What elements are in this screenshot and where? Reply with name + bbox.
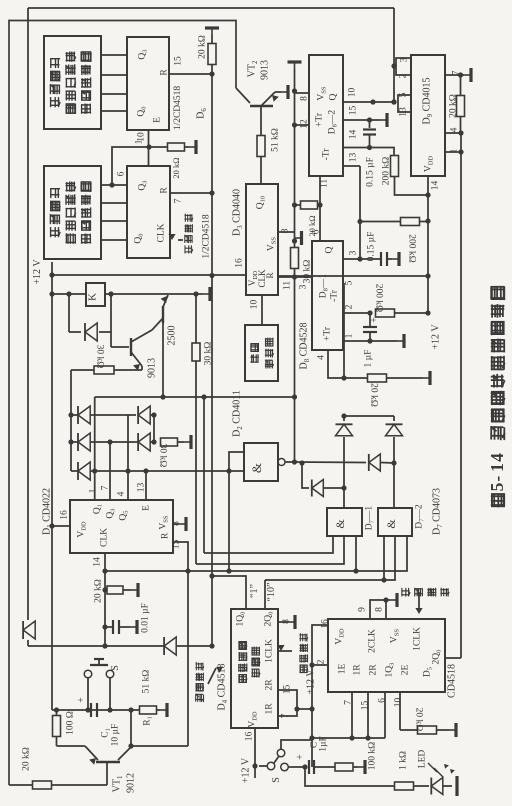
transistor VT1 bar [96,761,120,763]
junction +12V [49,272,54,277]
junction [353,568,358,573]
junction [209,643,214,648]
wire 30k col [195,294,197,343]
wire display bus units [101,184,127,186]
svg-text:S: S [110,665,121,671]
IC D3 CD4040 [246,184,278,295]
wire pin8 [278,621,288,623]
wire flyback right [110,294,112,332]
wire NAND-in col [228,471,230,571]
junction [68,412,73,417]
ground pin1 [397,340,404,342]
switch S2 contact dn [281,763,289,771]
wire VT2 emitter [261,92,275,106]
wire [57,745,86,747]
wire tie 9/8 [370,600,386,619]
junction [49,523,54,528]
svg-text:9013: 9013 [147,358,158,378]
wire D8-1 pin1 [343,340,397,342]
svg-text:1: 1 [88,488,98,493]
wire 1CLK stub [278,650,292,652]
wire base link [110,332,112,347]
resistor R1 51k [140,706,157,714]
junction [349,735,354,740]
junction [383,597,388,602]
wire 200k to D9 pin14 [395,176,429,195]
junction [367,338,372,343]
wire pin5 [343,282,344,284]
svg-text:2: 2 [344,304,354,309]
ground 20k [131,589,138,591]
ground D8-2 pins 8,12 [294,62,296,69]
capacitor 0.15uF (D8-2 timing) [363,128,376,130]
ground pin8 [179,523,186,525]
ground VT2 emitter [281,91,288,93]
wire pin7 [445,74,464,76]
wire bundle L5 [265,536,395,580]
wire [324,487,344,489]
junction [102,643,107,648]
svg-text:+12 V: +12 V [241,757,252,783]
svg-text:20 kΩ: 20 kΩ [369,383,379,407]
svg-text:+12 V: +12 V [306,669,317,695]
wire VT4 collector diag [131,330,152,342]
wire pin15/14 to gnd+cap [343,119,370,121]
diode flyback [85,323,97,341]
wire VT2 base [260,106,262,135]
wire +12V rail to D3 pin16 [52,274,246,276]
IC D8-2 monostable [309,55,343,176]
ground 100k [358,766,365,768]
svg-text:Q: Q [328,93,338,100]
arrowhead coin signal [216,667,223,673]
svg-text:R: R [159,69,169,76]
junction [102,587,107,592]
wire D1 pin14 col [104,553,106,646]
wire column [359,166,361,259]
wire LED feed [305,767,395,786]
block units-digit display driver [44,166,101,259]
svg-text:4: 4 [449,127,459,132]
junction [292,274,297,279]
wire [153,415,155,442]
wire tie [344,415,394,417]
svg-text:1/2CD4518: 1/2CD4518 [201,214,211,259]
svg-text:0.15 µF: 0.15 µF [366,232,376,262]
wire bus D6 column [211,74,213,193]
svg-text:6: 6 [116,171,126,176]
caption 图5-14 投币打靶游戏机电路 [487,286,507,507]
wire tie pins 5,13 [398,95,411,112]
ground matrix [184,441,191,443]
svg-text:+: + [76,697,87,703]
svg-text:-Tr: -Tr [329,289,339,302]
switch S1 bar [90,664,108,666]
IC D6 1/2CD4518 units counter (lower) [127,166,170,258]
wire pin14 [427,176,429,195]
svg-text:16: 16 [234,258,244,268]
junction [193,291,198,296]
svg-text:20 kΩ: 20 kΩ [414,708,424,732]
capacitor 0.15uF (D8-1) [380,252,382,266]
diode row2 right [138,433,150,451]
resistor 200k [376,309,395,317]
wire to D3 [260,157,262,184]
wire row1 [71,414,128,416]
svg-text:D4​ CD4518: D4​ CD4518 [217,663,229,710]
label hit-signal into D6 CLK [185,214,193,254]
wire to VT1 collector [131,745,188,747]
transistor VT4 bar [130,338,132,356]
resistor 200k (D8-2 timing) [391,156,399,177]
wire column (D8-2 gnd pins / 30k) [294,69,296,248]
svg-text:D3​ CD4040: D3​ CD4040 [232,189,244,236]
wire D8-1 pin3 [343,258,381,260]
wire [211,35,213,44]
svg-text:2500: 2500 [167,326,178,346]
svg-text:200 kΩ: 200 kΩ [407,234,417,262]
capacitor C1 10uF (polarized) [90,703,92,717]
wire [381,462,394,465]
svg-text:1CLK: 1CLK [264,639,274,663]
capacitor 0.01uF [112,620,114,634]
wire K rail to gnd node [105,293,196,295]
wire D7-2 in1 [383,536,385,580]
ground 9/8 [390,599,397,601]
wire S2 up-contact [281,740,313,749]
transistor VT3 bar [162,306,164,323]
svg-text:0.01 µF: 0.01 µF [140,603,150,633]
svg-text:14: 14 [348,130,358,140]
wire pin7 col [109,442,111,500]
wire display bus units [101,220,127,222]
wire [302,463,309,488]
svg-text:D8​—1: D8​—1 [318,274,329,299]
relay K [86,283,105,306]
wire display bus units [101,202,127,204]
wire top-bus drop / pin1 col [94,397,96,471]
svg-text:CD4518: CD4518 [447,664,458,698]
svg-text:14: 14 [430,181,440,191]
svg-text:+12 V: +12 V [431,324,442,350]
wire pin2 [312,664,328,666]
wire display bus [101,54,127,56]
wire VT3 collector [162,321,164,397]
wire +12V to D8/D9 area [278,275,428,277]
svg-text:E: E [141,505,151,511]
svg-text:2CLK: 2CLK [367,629,377,653]
switch S2 lever [274,756,279,763]
ground (20k top) [211,28,213,35]
bubble NAND output [278,459,285,466]
wire [314,766,335,768]
junction [49,291,54,296]
junction [292,238,297,243]
svg-text:1E: 1E [337,664,347,675]
wire pin16 [254,728,256,778]
diode VD on bus-B [23,621,35,639]
resistor 30k (matrix) [161,438,178,446]
svg-text:8: 8 [299,96,309,101]
svg-text:R: R [160,532,170,539]
svg-text:20 kΩ: 20 kΩ [21,747,31,771]
wire bus column [211,193,213,276]
svg-text:10 µF: 10 µF [110,724,120,747]
svg-text:+: + [369,317,380,323]
wire pin4 [445,132,461,134]
junction [209,573,214,578]
wire display bus [101,93,127,95]
svg-text:D7​ CD4073: D7​ CD4073 [432,488,444,535]
wire D6-bus column lower [211,276,213,646]
resistor 20k (pin4) [368,374,387,382]
junction [102,624,107,629]
svg-text:11: 11 [319,179,329,188]
wire bus PY646 [28,645,212,647]
wire bundle L3 [105,536,407,571]
svg-text:1: 1 [134,139,144,144]
wire pin1 [445,151,461,153]
junction [107,707,112,712]
junction [341,413,346,418]
svg-text:0.15 µF: 0.15 µF [365,157,375,187]
svg-text:51 kΩ: 51 kΩ [141,670,151,694]
arrow fire signal [277,645,284,651]
wire [443,785,452,787]
svg-text:1R: 1R [264,703,274,715]
wire bundle L1 [204,536,333,553]
svg-text:+: + [295,754,306,760]
svg-text:LED: LED [417,750,427,769]
wire pin1 [94,471,96,500]
svg-text:5: 5 [487,482,507,491]
junction [160,394,165,399]
block tens-digit display driver [44,36,101,129]
wire VT4 emitter diag [131,352,142,366]
wire bus-B left vertical [27,8,29,620]
svg-text:9012: 9012 [126,773,137,793]
junction [85,707,90,712]
wire [27,640,29,646]
diode row3 [78,462,90,480]
wire pin8 [173,523,179,525]
wire NAND input [229,470,244,472]
switch S1 contact a [84,670,92,678]
svg-text:-: - [487,476,507,482]
svg-text:+Tr: +Tr [322,326,332,341]
resistor 20k (D9) [457,96,465,117]
junction [151,439,156,444]
svg-text:9: 9 [357,607,367,612]
wire coin line [52,709,160,711]
wire D7-2 out [393,463,395,508]
label hit-signal (vertical) [401,588,403,597]
wire S2 dn-contact [289,766,304,768]
svg-text:20 kΩ: 20 kΩ [197,35,207,59]
svg-text:&: & [249,463,264,473]
svg-text:13: 13 [348,153,358,163]
block square-wave generator [245,325,278,381]
wire matrix top bus [95,396,295,398]
resistor 100Ω [53,716,61,737]
svg-text:9013: 9013 [260,60,271,80]
wire VT1 base [106,762,108,785]
gate D7-2 AND [378,508,412,536]
wire D1 pin15 [173,542,188,571]
wire +12V column [427,195,429,313]
svg-text:20 kΩ: 20 kΩ [93,579,103,603]
wire D4 2Q0 [264,580,266,609]
wire bus-A (left/top rail to VT2 collector) [9,21,236,786]
wire matrix left column [70,370,72,471]
wire [9,784,33,786]
wire +12V rail vertical [51,262,53,710]
junction [292,88,297,93]
wire [369,120,371,128]
wire column to NAND output [294,269,296,462]
wire 2Q0 [445,657,461,659]
svg-text:4: 4 [116,491,126,496]
wire bus-B top (to D9 pins 2/3) [28,7,394,9]
wire row3 [71,470,229,472]
svg-text:12: 12 [299,119,309,129]
wire D6L R pin7 [170,192,212,194]
wire [87,678,89,710]
wire D4 1Q0 [212,576,246,609]
junction [381,577,386,582]
wire bundle col a [203,397,205,553]
junction [201,394,206,399]
junction [391,63,396,68]
wire D8-1 pin2 [343,312,370,314]
svg-text:13: 13 [136,483,146,493]
junction [66,291,71,296]
wire 2E col [399,692,401,730]
wire tie line [312,737,385,739]
junction [357,256,362,261]
resistor 51k (VT2 base) [257,136,265,157]
svg-text:200 kΩ: 200 kΩ [374,284,384,312]
svg-text:D7​—2: D7​—2 [414,504,425,529]
junction [458,72,463,77]
arrow VT4 emitter [133,364,140,371]
svg-text:11: 11 [282,281,292,290]
svg-text:3: 3 [298,284,308,289]
diode VD on bus PY646 [164,637,176,655]
junction [425,310,430,315]
switch S2 contact up [277,749,285,757]
svg-text:-Tr: -Tr [321,148,331,161]
junction [309,706,314,711]
svg-text:R: R [265,272,275,278]
junction [226,568,231,573]
svg-text:D8​—2: D8​—2 [327,110,338,135]
junction [391,99,396,104]
junction [292,202,297,207]
arrow VT2 emitter [272,95,279,102]
svg-text:16: 16 [320,619,330,629]
svg-text:CLK: CLK [99,528,109,547]
diode (hit gate) [369,454,381,471]
wire E-pins tie [112,147,168,185]
resistor 200k (hold) [401,218,420,226]
junction [292,459,297,464]
wire tie pins 3,2 [396,58,411,75]
junction [209,190,214,195]
svg-text:30 kΩ: 30 kΩ [158,444,168,468]
svg-text:1: 1 [487,463,507,472]
svg-text:“10”: “10” [266,583,277,602]
IC D1 CD4022 [70,500,173,553]
svg-text:2R: 2R [264,679,274,691]
wire pin10/15 [343,101,394,103]
junction [151,412,156,417]
svg-text:30 kΩ: 30 kΩ [302,260,312,284]
ground pin7 [464,74,471,76]
junction [367,145,372,150]
svg-text:6: 6 [377,698,387,703]
ground 20k [449,729,456,731]
svg-text:2: 2 [316,659,326,664]
IC D9 CD4015 [411,55,445,176]
wire right bus (D9 to D5 2Q0) [460,133,462,658]
wire D3 pin8 [278,231,295,233]
wire [369,135,371,148]
junction [292,394,297,399]
wire VT3 emitter [163,295,168,307]
ground cap [130,626,137,628]
wire 1R col [351,692,353,738]
wire [195,361,197,564]
wire K rail [52,293,86,295]
svg-text:15: 15 [171,540,181,550]
wire D6 R pin15 [169,73,212,75]
wire pin13 col [145,471,147,500]
wire row2 [71,441,154,443]
svg-text:51 kΩ: 51 kΩ [270,128,280,152]
svg-text:20 kΩ: 20 kΩ [307,215,317,236]
junction [425,192,430,197]
IC D4 fire counter [231,609,278,728]
svg-text:2E: 2E [400,665,410,676]
svg-text:CLK: CLK [156,223,166,242]
wire bus-B drop at D9 [393,8,395,102]
junction [102,568,107,573]
wire D5 VDD +12V col [312,625,328,767]
junction [209,71,214,76]
wire pin4 col [127,415,129,500]
junction [458,149,463,154]
wire NAND inputs tie [229,452,244,471]
junction [294,706,299,711]
svg-text:E: E [152,117,162,123]
wire [56,737,58,746]
wire tie 2R/1R [278,690,297,716]
arrow VT1 emitter (9012) [89,758,96,765]
junction [252,763,257,768]
svg-text:&: & [384,519,398,529]
wire VT4 base [111,346,129,348]
diode [312,480,324,497]
IC D5 CD4518 [328,619,445,692]
junction [425,273,430,278]
junction [146,144,151,149]
junction [391,99,396,104]
diode row1 left [78,406,90,424]
capacitor C2 1uF (polarized) [308,760,310,774]
svg-text:3: 3 [348,250,358,255]
svg-text:14: 14 [92,557,102,567]
